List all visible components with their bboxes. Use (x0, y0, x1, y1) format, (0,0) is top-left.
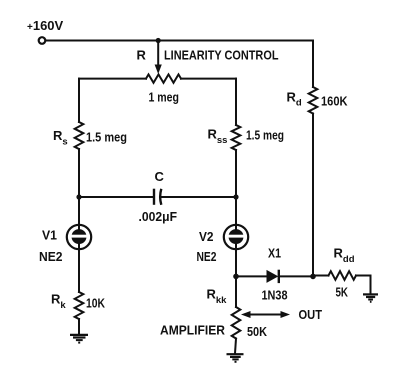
terminal +160V (39, 37, 46, 44)
potentiometer R 1 meg (146, 74, 181, 82)
svg-text:V2: V2 (199, 229, 214, 244)
wire Rdd to right ground (356, 276, 371, 294)
junction dot node X1/Rd/Rdd (310, 274, 316, 280)
resistor Rk 10K (75, 292, 84, 319)
svg-text:50K: 50K (247, 324, 268, 339)
wire right vertical upper (top bus to Rd) (312, 41, 314, 88)
svg-text:V1: V1 (42, 228, 57, 243)
svg-text:R: R (137, 48, 147, 63)
wire V1 bottom to Rk (78, 250, 80, 292)
ground (below Rkk) (227, 354, 244, 362)
svg-text:.002μF: .002μF (139, 210, 178, 224)
svg-text:1.5 meg: 1.5 meg (246, 129, 284, 143)
resistor Rss 1.5 meg (232, 125, 241, 150)
wire left vertical (pot bus corner down to Rs) (78, 79, 80, 122)
svg-text:+160V: +160V (27, 18, 64, 33)
wire top bus from +160V terminal to right corner (46, 40, 314, 42)
wire right vertical lower (Rd to diode junction) (312, 114, 314, 277)
junction dot node V2/X1/Rkk (233, 274, 239, 280)
svg-text:160K: 160K (321, 94, 348, 109)
diode X1 1N38 (267, 270, 279, 283)
svg-text:NE2: NE2 (39, 249, 63, 264)
wire middle vertical (pot bus corner down to Rss) (235, 79, 237, 125)
wire potentiometer R wiper stem (157, 41, 159, 67)
ground (below Rdd) (363, 294, 378, 301)
svg-text:1.5 meg: 1.5 meg (86, 131, 127, 145)
svg-text:1 meg: 1 meg (149, 91, 180, 105)
wire diode right junction to Rdd (313, 275, 329, 277)
arrowhead Rkk wiper left (241, 311, 251, 318)
wire capacitor left segment (79, 196, 153, 198)
svg-text:NE2: NE2 (197, 249, 217, 264)
capacitor C plates (154, 189, 161, 205)
junction dot node R wiper (156, 38, 161, 43)
wire V2 bottom to diode junction (235, 250, 237, 277)
arrowhead Rkk wiper right (OUT) (281, 311, 291, 318)
resistor Rs 1.5 meg (75, 122, 84, 149)
junction dot node capacitor left (76, 194, 81, 199)
wire Rk to ground (78, 319, 80, 334)
potentiometer Rkk 50K (232, 307, 241, 339)
wire diode junction down to Rkk (235, 276, 237, 307)
resistor Rdd 5K (329, 271, 357, 280)
wire pot bus left segment (79, 78, 146, 80)
neon lamp V2 (224, 225, 248, 250)
wire pot bus right segment (181, 78, 236, 80)
wire diode branch (junction to diode and to right junction) (236, 275, 267, 277)
svg-text:X1: X1 (268, 246, 281, 261)
junction dot node capacitor right (233, 194, 238, 199)
wire middle vertical (Rss to V2 top) (235, 150, 237, 225)
ground (below Rk) (70, 335, 88, 343)
svg-text:C: C (155, 169, 165, 184)
wire Rkk to ground (235, 339, 236, 354)
svg-text:1N38: 1N38 (262, 288, 288, 303)
svg-text:AMPLIFIER: AMPLIFIER (160, 323, 226, 338)
svg-text:10K: 10K (86, 296, 105, 311)
svg-text:LINEARITY CONTROL: LINEARITY CONTROL (164, 48, 279, 63)
neon lamp V1 (67, 224, 91, 250)
svg-text:OUT: OUT (299, 307, 323, 322)
svg-text:5K: 5K (336, 285, 349, 300)
arrowhead potentiometer R wiper (155, 65, 162, 75)
wire Rkk wiper to OUT (246, 314, 285, 316)
resistor Rd 160K (309, 87, 318, 114)
wire capacitor right segment (161, 196, 236, 198)
wire left vertical (Rs to V1 top) (78, 149, 80, 225)
